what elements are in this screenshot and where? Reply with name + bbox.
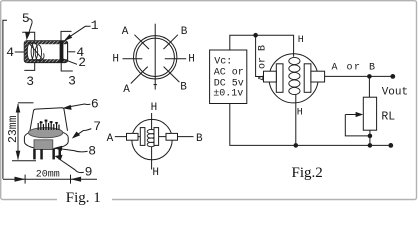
electrode right xyxy=(154,128,159,146)
sensor circle Fig.2 xyxy=(269,54,318,103)
sensor dome (Fig.1 bottom) xyxy=(30,108,68,133)
svg-text:A or B: A or B xyxy=(332,63,377,74)
wire A/B left drop xyxy=(256,35,265,76)
node dot heater bottom xyxy=(294,143,299,148)
svg-text:H: H xyxy=(151,102,158,114)
svg-text:3: 3 xyxy=(68,74,76,89)
label 8 leader xyxy=(59,149,88,152)
label 4 right leader xyxy=(68,51,75,53)
inner pin cluster xyxy=(38,120,59,130)
pin B bottom-right line xyxy=(164,67,180,83)
svg-text:H: H xyxy=(112,54,119,66)
heater coil Fig.2 xyxy=(289,57,300,64)
bracket mark bottom-right xyxy=(61,62,73,71)
sleeve left xyxy=(127,133,139,140)
pinout top: outer circle xyxy=(134,36,177,79)
terminal dot rail end xyxy=(388,143,393,148)
label 6 leader xyxy=(67,104,91,107)
pin A bottom-left line xyxy=(131,67,148,84)
tube hatched bottom band xyxy=(25,59,67,62)
svg-text:H: H xyxy=(298,35,304,46)
heater coil xyxy=(27,43,34,61)
pin 4 xyxy=(59,149,62,159)
pin 2 xyxy=(40,149,43,159)
lead left inside xyxy=(265,76,277,78)
sleeve right xyxy=(166,133,178,140)
key line vertical xyxy=(154,24,156,90)
node dot wiper xyxy=(368,134,373,139)
tube hatched top band xyxy=(25,41,67,44)
base rim cylinder xyxy=(24,130,68,150)
svg-text:Fig.2: Fig.2 xyxy=(292,165,323,181)
terminal dot Vout xyxy=(390,74,395,79)
Fig.1 caption (white box over frame) xyxy=(57,189,112,203)
svg-text:1: 1 xyxy=(91,18,99,33)
pin 1 xyxy=(33,149,36,159)
heater wire bottom xyxy=(151,147,153,170)
gray top plate xyxy=(28,128,62,138)
svg-text:Vout: Vout xyxy=(382,86,408,98)
pinout bottom: circle xyxy=(132,119,172,159)
pin A top-left line xyxy=(134,35,149,49)
heater wire bottom Fig.2 xyxy=(295,95,297,146)
sleeve left Fig.2 xyxy=(264,71,277,82)
label 4 left leader xyxy=(15,51,24,53)
heater wire top xyxy=(151,113,153,130)
wiper return wire xyxy=(345,115,370,136)
ground rail bottom xyxy=(230,104,391,146)
bracket mark top-right xyxy=(61,31,72,40)
electrode left Fig.2 xyxy=(276,64,283,93)
lower housing xyxy=(34,140,53,150)
svg-text:9: 9 xyxy=(85,165,93,180)
svg-text:23mm: 23mm xyxy=(7,115,20,143)
svg-text:A: A xyxy=(107,133,114,145)
svg-text:7: 7 xyxy=(93,119,101,134)
svg-text:RL: RL xyxy=(381,110,395,123)
svg-text:B: B xyxy=(181,26,188,38)
svg-text:B: B xyxy=(180,82,187,94)
tube hatched left band xyxy=(25,41,28,62)
label 9 leader xyxy=(59,159,84,173)
svg-text:AC or: AC or xyxy=(214,68,244,79)
electrode right Fig.2 xyxy=(304,64,311,93)
electrode bar xyxy=(60,41,64,62)
svg-text:2: 2 xyxy=(78,55,86,70)
svg-text:6: 6 xyxy=(91,97,99,112)
svg-text:H: H xyxy=(188,54,195,66)
bracket mark bottom-left xyxy=(24,62,34,70)
svg-text:Vc:: Vc: xyxy=(214,56,232,67)
pin H left line xyxy=(123,58,143,60)
lead A line xyxy=(115,136,141,138)
svg-text:8: 8 xyxy=(88,144,96,159)
svg-text:H: H xyxy=(152,167,159,179)
svg-text:Fig. 1: Fig. 1 xyxy=(66,190,101,206)
resistor RL box xyxy=(363,97,376,130)
svg-text:H: H xyxy=(297,108,303,119)
label 1 leader xyxy=(66,26,91,39)
wiper arrow xyxy=(345,114,357,116)
heater coil xyxy=(147,129,155,133)
pin 3 xyxy=(52,149,55,159)
label 2 leader xyxy=(63,59,77,64)
wire Vc top xyxy=(230,35,294,57)
pin H right line xyxy=(165,58,186,60)
label 5 leader xyxy=(28,19,33,37)
wire to RL xyxy=(368,76,370,97)
svg-text:20mm: 20mm xyxy=(36,170,60,181)
svg-text:B: B xyxy=(196,133,203,145)
node dot lead B xyxy=(367,74,372,79)
sleeve right Fig.2 xyxy=(311,71,325,82)
lead B line xyxy=(159,136,194,138)
bracket mark top-left xyxy=(22,32,35,40)
left margin bracket xyxy=(3,20,7,179)
node dot RL bottom xyxy=(368,143,373,148)
svg-text:5: 5 xyxy=(22,11,30,26)
dimension 23mm line xyxy=(17,104,19,159)
electrode left xyxy=(140,128,145,146)
svg-text:3: 3 xyxy=(26,74,34,89)
svg-text:4: 4 xyxy=(6,45,14,60)
svg-text:±0.1v: ±0.1v xyxy=(213,89,243,100)
lead B wire to output xyxy=(325,75,393,77)
pinout top: inner circle xyxy=(136,38,174,76)
svg-text:A: A xyxy=(122,26,129,38)
sensor tube body (Fig.1 top) xyxy=(24,41,67,63)
dimension 20mm line xyxy=(3,178,97,180)
label 7 leader xyxy=(76,129,92,136)
pin B top-right line xyxy=(164,35,178,49)
Vc source box xyxy=(210,50,247,104)
svg-text:A: A xyxy=(123,84,130,96)
wire RL bottom xyxy=(369,130,371,145)
node dot top xyxy=(253,33,258,38)
